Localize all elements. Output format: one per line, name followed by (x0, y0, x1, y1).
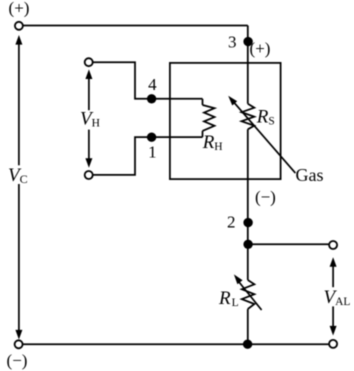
svg-text:1: 1 (148, 143, 157, 162)
svg-text:Gas: Gas (296, 165, 324, 185)
resistor RH bottom lead (202, 131, 204, 137)
resistor RS zigzag (242, 104, 255, 130)
wire bottom rail (22, 343, 329, 345)
bottom rail junction dot (243, 340, 252, 349)
gas arrow through RS (233, 101, 295, 173)
node 3 dot (243, 37, 252, 46)
node 4 dot (147, 94, 156, 103)
VC dimension arrow (18, 43, 20, 332)
svg-text:RS: RS (256, 107, 275, 128)
VAL dimension arrow (332, 265, 334, 329)
wire from top rail down through node 3 to Rs top (247, 26, 249, 104)
wire junction to right terminal (248, 243, 329, 245)
svg-text:RL: RL (218, 288, 239, 309)
resistor RH top lead (202, 99, 204, 105)
svg-text:2: 2 (227, 213, 236, 232)
svg-text:(−): (−) (7, 351, 28, 370)
terminal circle bottom-left (15, 340, 23, 348)
node 2 dot (243, 218, 252, 227)
svg-text:4: 4 (148, 75, 157, 94)
junction dot node 2 to VAL (243, 240, 252, 249)
terminal circle VH top (85, 58, 93, 66)
svg-text:(+): (+) (9, 0, 30, 18)
resistor RH zigzag (203, 105, 215, 131)
RL variable arrow (239, 282, 262, 310)
svg-text:VH: VH (80, 108, 100, 129)
svg-text:RH: RH (202, 132, 223, 153)
VH dimension arrow (88, 76, 90, 161)
terminal circle VAL top (329, 241, 337, 249)
wire top rail (23, 25, 248, 27)
svg-text:3: 3 (228, 33, 237, 52)
wire junction down to RL top (247, 244, 249, 280)
svg-text:VC: VC (8, 165, 28, 186)
terminal circle top-left (15, 22, 23, 30)
terminal circle VH bottom (85, 171, 93, 179)
wire VH top terminal to node 4 into box (92, 62, 202, 99)
resistor RL zigzag (242, 280, 255, 309)
svg-text:VAL: VAL (324, 287, 351, 308)
node 1 dot (147, 133, 156, 142)
terminal circle VAL bottom (329, 340, 337, 348)
sensor box outline (170, 63, 281, 179)
svg-text:(−): (−) (255, 188, 276, 207)
svg-text:(+): (+) (250, 39, 271, 58)
wire RL bottom to bottom rail (247, 309, 249, 344)
wire Rs bottom through node 2 to junction (247, 129, 249, 244)
wire RH bottom through node 1 to VH bottom terminal (92, 137, 202, 175)
